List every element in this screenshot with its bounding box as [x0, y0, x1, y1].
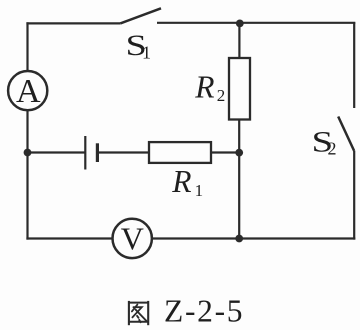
svg-text:1: 1 — [195, 181, 204, 200]
svg-text:2: 2 — [217, 86, 226, 105]
wire: middle junction down to bottom junction — [238, 153, 240, 239]
voltmeter V body circle — [113, 219, 152, 258]
svg-text:R: R — [194, 70, 214, 105]
svg-text:1: 1 — [142, 43, 151, 63]
switch S1 arm — [120, 8, 161, 23]
resistor R1 body — [149, 142, 211, 163]
node: junction dot on bottom wire — [235, 235, 243, 243]
ammeter A body circle — [8, 71, 47, 110]
wire: left side, top segment (corner to ammeter) — [26, 22, 28, 71]
node: junction dot on top wire — [236, 20, 244, 28]
wire: right side, bottom segment (S2 to bottom-right corner) — [353, 151, 355, 240]
svg-text:Z-2-5: Z-2-5 — [164, 293, 244, 328]
switch S2 arm — [338, 117, 354, 152]
wire: bottom side, left segment (voltmeter to bottom-left corner) — [26, 237, 112, 239]
wire: top side, right segment (S1 contact to top-right corner) — [157, 22, 355, 24]
wire: R1 to middle junction — [211, 151, 239, 153]
caption hanzi 图 (drawn strokes) — [129, 301, 148, 325]
battery cell long plate (positive) — [84, 136, 86, 170]
wire: right side, top segment (corner to switch S2) — [353, 22, 355, 108]
wire: middle branch, left junction to battery — [28, 151, 86, 153]
wire: bottom side, right segment (corner to voltmeter) — [152, 237, 355, 239]
wire: battery to resistor R1 — [97, 151, 149, 153]
node: junction dot middle (R1/R2 meet) — [235, 149, 243, 157]
wire: top junction down to R2 — [238, 23, 240, 58]
wire: left side, bottom segment (ammeter to bottom corner) — [26, 110, 28, 240]
resistor R2 body — [229, 58, 250, 120]
wire: R2 to middle junction — [238, 120, 240, 153]
wire: top side, left segment (to switch S1) — [26, 22, 120, 24]
battery cell short plate (negative) — [96, 143, 99, 162]
node: junction dot left (battery branch to left wire) — [24, 149, 32, 157]
svg-text:R: R — [171, 164, 191, 199]
svg-text:2: 2 — [328, 138, 337, 158]
svg-text:V: V — [121, 220, 144, 256]
svg-text:A: A — [16, 73, 41, 110]
